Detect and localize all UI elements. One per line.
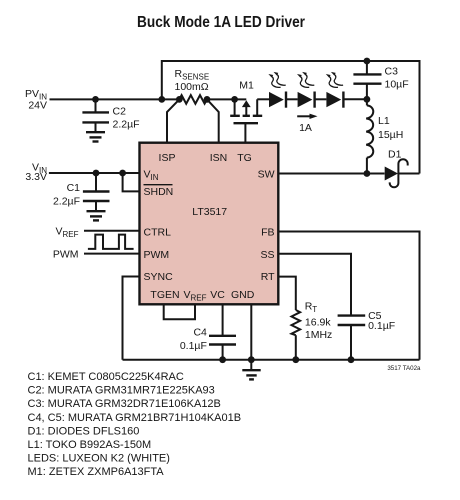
LED1 light arrows xyxy=(268,72,285,87)
wire kelvin to ISP pin xyxy=(167,99,179,142)
value label C5 0.1uF xyxy=(368,310,395,332)
svg-text:C1: C1 xyxy=(67,182,81,194)
svg-text:3517 TA02a: 3517 TA02a xyxy=(387,365,421,372)
svg-text:M1: M1 xyxy=(239,80,254,92)
transistor M1 (PMOS) xyxy=(230,99,262,142)
value label RSENSE 100mOhm xyxy=(175,68,210,93)
svg-text:15µH: 15µH xyxy=(378,129,403,141)
LED D-LED2 xyxy=(298,92,315,108)
node M1 source junction xyxy=(231,96,238,103)
svg-text:SYNC: SYNC xyxy=(144,271,174,283)
parts list xyxy=(28,371,242,478)
svg-text:C4, C5: MURATA GRM21BR71H104KA: C4, C5: MURATA GRM21BR71H104KA01B xyxy=(28,412,242,424)
svg-text:2.2µF: 2.2µF xyxy=(113,119,140,131)
capacitor C3 xyxy=(353,61,381,99)
node junction C1 xyxy=(93,170,100,177)
LED3 light arrows xyxy=(326,72,343,87)
svg-text:D1: D1 xyxy=(388,149,402,161)
capacitor C2 xyxy=(82,99,109,132)
wire RSENSE to M1 source node xyxy=(207,98,246,100)
svg-text:D1: DIODES DFLS160: D1: DIODES DFLS160 xyxy=(28,425,140,437)
svg-text:0.1µF: 0.1µF xyxy=(180,340,207,352)
node LED/C3/L1 junction xyxy=(364,96,371,103)
LED D-LED1 xyxy=(269,92,286,108)
svg-text:M1: ZETEX ZXMP6A13FTA: M1: ZETEX ZXMP6A13FTA xyxy=(28,466,165,478)
svg-text:10µF: 10µF xyxy=(385,79,409,91)
wire GND pin down to rail xyxy=(250,304,252,359)
value label RT 16.9k 1MHz xyxy=(305,301,333,341)
svg-text:SHDN: SHDN xyxy=(144,186,174,198)
wire PWM to PWM pin xyxy=(84,253,140,255)
svg-text:1MHz: 1MHz xyxy=(305,329,332,341)
ground (main) xyxy=(242,360,260,380)
node RSENSE right kelvin dot xyxy=(204,96,211,103)
svg-text:C2: C2 xyxy=(113,106,127,118)
svg-text:TG: TG xyxy=(237,152,252,164)
node RT / rail junction xyxy=(292,356,299,363)
node C5 / rail junction xyxy=(348,356,355,363)
wire RT to rail xyxy=(295,335,297,360)
svg-text:SW: SW xyxy=(258,169,275,181)
svg-text:16.9k: 16.9k xyxy=(305,316,331,328)
inductor L1 xyxy=(366,99,373,173)
svg-text:24V: 24V xyxy=(28,100,47,112)
svg-text:Buck Mode 1A LED Driver: Buck Mode 1A LED Driver xyxy=(137,14,305,31)
IC U1 LT3517 body xyxy=(140,143,279,305)
svg-text:0.1µF: 0.1µF xyxy=(368,320,395,332)
svg-text:GND: GND xyxy=(231,289,255,301)
svg-text:3.3V: 3.3V xyxy=(25,171,47,183)
node top rail / C3 junction xyxy=(364,58,371,65)
wire SYNC to ground rail xyxy=(123,277,140,360)
capacitor C5 xyxy=(338,316,366,360)
node junction C2 xyxy=(92,96,99,103)
node SW/L1/D1 junction xyxy=(364,170,371,177)
svg-text:LT3517: LT3517 xyxy=(192,206,227,218)
wire bottom ground rail xyxy=(123,359,420,361)
wire VIN input xyxy=(49,172,140,174)
resistor RT zigzag xyxy=(292,310,301,335)
pin label SHDN (with overline) xyxy=(144,185,174,198)
svg-text:PWM: PWM xyxy=(144,249,170,261)
svg-text:C3: MURATA GRM32DR71E106KA12B: C3: MURATA GRM32DR71E106KA12B xyxy=(28,398,221,410)
wire FB loop xyxy=(279,232,420,360)
svg-text:TGEN: TGEN xyxy=(150,289,179,301)
wire top rail up/across/down xyxy=(162,61,420,174)
svg-text:ISN: ISN xyxy=(210,152,228,164)
svg-text:VC: VC xyxy=(210,289,225,301)
node junction SHDN tap xyxy=(119,170,126,177)
value label C2 2.2uF xyxy=(113,106,140,131)
value label L1 15uH xyxy=(378,115,403,141)
svg-text:FB: FB xyxy=(261,227,274,239)
wire SW pin to D1 xyxy=(279,173,385,175)
wire LED3 to C3/L1 node xyxy=(343,98,367,100)
ground (C2) xyxy=(86,132,105,141)
wire PVIN main horizontal xyxy=(50,98,180,100)
wire RT pin to resistor xyxy=(279,277,296,310)
svg-text:2.2µF: 2.2µF xyxy=(53,196,80,208)
svg-text:100mΩ: 100mΩ xyxy=(175,81,209,93)
svg-text:C3: C3 xyxy=(385,66,399,78)
svg-text:L1: L1 xyxy=(378,115,390,127)
svg-text:CTRL: CTRL xyxy=(144,227,172,239)
wire M1 drain to LED1 xyxy=(257,98,269,100)
wire VC pin down to C4 xyxy=(222,304,224,336)
resistor RSENSE zigzag xyxy=(179,95,207,104)
svg-text:ISP: ISP xyxy=(159,152,176,164)
node C4 / rail junction xyxy=(219,356,226,363)
ground (C1) xyxy=(87,211,106,220)
current arrow 1A xyxy=(297,114,317,134)
LED2 light arrows xyxy=(297,72,314,87)
node GND / rail junction xyxy=(248,356,255,363)
svg-text:C1: KEMET C0805C225K4RAC: C1: KEMET C0805C225K4RAC xyxy=(28,371,184,383)
wire TGEN-VREF U link xyxy=(164,304,195,319)
svg-text:C4: C4 xyxy=(193,327,207,339)
LED D-LED3 xyxy=(326,92,343,108)
svg-text:SS: SS xyxy=(260,249,274,261)
capacitor C1 xyxy=(83,173,110,211)
wire LED2 to LED3 xyxy=(315,98,327,100)
capacitor C4 xyxy=(209,336,236,360)
node junction top-rail tap xyxy=(158,96,165,103)
value label C3 10uF xyxy=(385,66,409,91)
svg-text:C2: MURATA GRM31MR71E225KA93: C2: MURATA GRM31MR71E225KA93 xyxy=(28,385,215,397)
wire SS pin to C5 xyxy=(279,254,351,316)
wire LED1 to LED2 xyxy=(286,98,298,100)
diode D1 (Schottky) xyxy=(385,159,420,187)
svg-text:PWM: PWM xyxy=(53,249,79,261)
value label C1 2.2uF xyxy=(53,182,80,208)
node RSENSE left kelvin dot xyxy=(176,96,183,103)
svg-text:RT: RT xyxy=(261,271,275,283)
svg-text:1A: 1A xyxy=(299,122,312,134)
PWM pulse waveform xyxy=(88,235,134,249)
svg-text:L1: TOKO B992AS-150M: L1: TOKO B992AS-150M xyxy=(28,439,152,451)
svg-text:LEDS: LUXEON K2 (WHITE): LEDS: LUXEON K2 (WHITE) xyxy=(28,453,170,465)
wire SHDN jog xyxy=(123,173,140,191)
value label C4 0.1uF xyxy=(180,327,207,353)
wire kelvin to ISN pin xyxy=(207,99,219,142)
wire VREF to CTRL pin xyxy=(84,230,140,232)
